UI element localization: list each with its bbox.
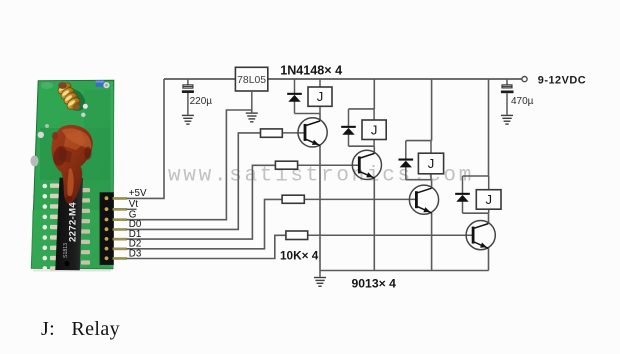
wire Vt stub <box>127 208 137 210</box>
diode D2 (1N4148) <box>341 126 356 135</box>
svg-text:J: J <box>317 89 324 104</box>
solder pads on PCB <box>31 104 88 167</box>
wire R4 to Q4 base <box>308 234 473 236</box>
wire relay J3 bottom lead <box>430 174 432 180</box>
wire D2 anode lead <box>348 109 350 127</box>
svg-text:J: Relay: J: Relay <box>41 318 120 340</box>
relay J4 (J box) <box>476 190 501 210</box>
transistor Q4 (9013 NPN) <box>466 221 495 250</box>
wire ground rail stem <box>319 271 321 277</box>
wire D1 cathode lead <box>294 101 296 113</box>
svg-text:9013× 4: 9013× 4 <box>352 277 397 291</box>
svg-text:1N4148× 4: 1N4148× 4 <box>280 64 342 78</box>
relay J2 (J box) <box>362 120 386 140</box>
svg-text:J: J <box>485 192 492 207</box>
PCB through-hole pads (left column) <box>43 184 48 271</box>
diode D1 (1N4148) <box>287 93 302 102</box>
svg-text:470µ: 470µ <box>511 96 534 107</box>
ground (under C1) <box>182 115 194 125</box>
svg-text:J: J <box>371 122 378 137</box>
wire stage 2 diode/relay bottom <box>349 145 375 147</box>
wire Q3 collector wire <box>431 180 433 189</box>
pin header (black) with gold pins <box>100 192 127 265</box>
resistor R3 (10K) <box>282 195 304 203</box>
orange SAW filter blob on PCB <box>51 125 92 204</box>
wire Q4 emitter wire <box>488 248 490 270</box>
wire relay J3 top lead <box>430 141 432 154</box>
wire D1 pin to base resistor <box>127 165 276 239</box>
wire stage 1 diode/relay bottom <box>295 113 321 115</box>
resistor R1 (10K) <box>261 129 283 137</box>
wire Q3 emitter wire <box>431 213 433 271</box>
svg-text:2272-M4: 2272-M4 <box>68 202 79 242</box>
wire G pin to ground net <box>127 110 252 220</box>
wire D4 cathode lead <box>462 201 464 213</box>
wire +5V from module to regulator output <box>127 79 165 198</box>
resistor R2 (10K) <box>275 161 297 169</box>
wire R1 to Q1 base <box>282 132 305 134</box>
ground (under C2) <box>501 115 513 125</box>
wire 470u top lead <box>506 79 508 85</box>
wire Q4 collector wire <box>488 213 490 223</box>
wire stage 3 diode/relay bottom <box>406 179 432 181</box>
diode D3 (1N4148) <box>399 159 414 168</box>
diode D4 (1N4148) <box>455 193 470 202</box>
wire Q1 emitter wire <box>319 146 321 271</box>
wire R3 to Q3 base <box>304 198 416 200</box>
wire D3 anode lead <box>405 141 407 160</box>
wire D3 pin to base resistor <box>127 235 286 258</box>
svg-text:10K× 4: 10K× 4 <box>280 249 319 263</box>
svg-text:+5V: +5V <box>129 188 147 199</box>
wire D4 anode lead <box>462 176 464 194</box>
wire 78L05 ground pin <box>251 91 253 112</box>
svg-text:D3: D3 <box>129 248 142 259</box>
transistor Q1 (9013 NPN) <box>298 118 327 147</box>
svg-text:9-12VDC: 9-12VDC <box>538 75 586 87</box>
wire Q2 collector wire <box>373 146 375 153</box>
ground (main) <box>314 277 326 287</box>
wire stage 3 riser from rail <box>431 79 433 141</box>
svg-text:J: J <box>428 156 435 171</box>
labels module pins +5V Vt G D0 D1 D2 D3 <box>129 188 147 259</box>
wire relay J2 bottom lead <box>373 140 375 147</box>
wire relay J1 bottom lead <box>319 106 321 113</box>
wire 470u bottom lead <box>506 93 508 115</box>
wire stage 4 diode/relay top <box>463 175 489 177</box>
wire stage 3 diode/relay top <box>406 140 432 142</box>
wire 220u bottom lead <box>187 93 189 115</box>
relay J3 (J box) <box>418 153 443 174</box>
transistor Q2 (9013 NPN) <box>352 150 381 179</box>
capacitor C1 220u (electrolytic) <box>182 85 194 93</box>
inductor coil L1 (gold coil on PCB) <box>56 81 90 115</box>
IC PT2272-M4 (black DIP) <box>50 178 90 271</box>
wire +12V top rail <box>164 78 522 80</box>
wire relay J2 top lead <box>373 109 375 120</box>
svg-text:220µ: 220µ <box>190 96 213 107</box>
resistor R4 (10K) <box>286 231 308 240</box>
wire Q1 collector wire <box>319 114 321 121</box>
wire D2 pin to base resistor <box>127 199 283 248</box>
svg-text:S1813: S1813 <box>63 243 69 258</box>
svg-text:Vt: Vt <box>129 199 139 210</box>
RF receiver module (PCB photo) <box>31 64 587 340</box>
wire stage 2 diode/relay top <box>349 108 375 110</box>
transistor Q3 (9013 NPN) <box>409 185 438 214</box>
capacitor C2 470u (electrolytic) <box>501 85 514 93</box>
wire 220u top lead <box>187 79 189 85</box>
wire emitter ground rail <box>320 270 489 272</box>
terminal 9-12VDC input <box>522 77 527 82</box>
regulator U2 78L05 <box>235 67 267 91</box>
wire D0 pin to base resistor <box>127 133 261 230</box>
wire stage 4 diode/relay bottom <box>463 212 489 214</box>
wire stage 4 riser from rail <box>488 79 490 176</box>
wire relay J4 bottom lead <box>488 209 490 213</box>
wire R2 to Q2 base <box>298 164 360 166</box>
wire Q2 emitter wire <box>373 178 375 270</box>
svg-text:78L05: 78L05 <box>237 75 266 86</box>
wire D3 cathode lead <box>405 167 407 180</box>
wire relay J1 top lead <box>319 79 321 87</box>
relay J1 (J box) <box>308 87 332 106</box>
wire D1 anode lead <box>294 79 296 94</box>
wire D2 cathode lead <box>348 134 350 146</box>
ground (under 78L05) <box>246 112 258 122</box>
wire stage 2 riser from rail <box>373 79 375 109</box>
wire relay J4 top lead <box>488 176 490 190</box>
trimmer capacitor (blue) on PCB <box>96 81 110 89</box>
